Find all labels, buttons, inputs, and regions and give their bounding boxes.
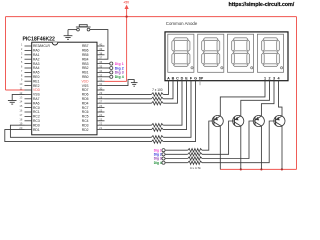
display segments digit 1 — [174, 38, 189, 41]
display DP dot digit 2 — [221, 67, 223, 69]
wire Q4 collector to +5V rail — [281, 126, 283, 169]
display DP dot digit 3 — [251, 67, 253, 69]
svg-text:RE3/MCLR: RE3/MCLR — [33, 44, 50, 48]
svg-text:RB3: RB3 — [82, 62, 89, 66]
svg-text:RE1: RE1 — [33, 79, 40, 83]
pin stub right 32 VDD — [97, 80, 105, 82]
svg-text:RC0: RC0 — [33, 106, 40, 110]
wire +5V left drop to VDD pin 11 — [5, 17, 7, 90]
svg-text:RE0: RE0 — [33, 75, 40, 79]
wire resistor to Q4 base — [202, 121, 276, 163]
display DP dot digit 4 — [280, 67, 282, 69]
wire Q1 collector to +5V rail — [219, 126, 221, 169]
svg-text:RC2: RC2 — [33, 115, 40, 119]
svg-text:RA1: RA1 — [33, 53, 40, 57]
wire Q4 emitter lead — [281, 115, 283, 117]
pin stub left 14 RA6 — [25, 102, 32, 104]
svg-text:https://simple-circuit.com/: https://simple-circuit.com/ — [229, 2, 295, 8]
wire Dig2 to resistor — [165, 153, 188, 155]
node Dig 1 terminal — [110, 62, 113, 65]
pin stub right 33 RB0 — [97, 76, 105, 78]
resistor 4.7k base Q3 — [188, 157, 202, 160]
wire Q2 collector to +5V rail — [240, 126, 242, 169]
wire resistor to Q1 base — [202, 121, 214, 150]
wire resistor to Q3 base — [202, 121, 255, 159]
pin stub left 8 RE0 — [25, 76, 32, 78]
pin stub right 29 RD6 — [97, 93, 105, 95]
pin stub left 1 RE3/MCLR — [25, 45, 32, 47]
pin stub right 25 RC6 — [97, 111, 105, 113]
pin stub right 38 RB5 — [97, 54, 105, 56]
svg-text:RC5: RC5 — [82, 115, 89, 119]
display 4-digit 7-segment module — [165, 32, 288, 81]
pin DP stub unconnected — [199, 81, 201, 86]
svg-text:A: A — [167, 77, 170, 81]
display digit 2 module — [198, 34, 224, 72]
svg-text:RA2: RA2 — [33, 57, 40, 61]
svg-text:+5V: +5V — [123, 1, 130, 5]
display digit 4 module — [257, 34, 283, 72]
resistor 100 ohm seg E — [152, 128, 164, 131]
wire Q3 emitter lead — [260, 115, 262, 117]
resistor 4.7k base Q4 — [188, 161, 202, 164]
svg-text:RB1: RB1 — [82, 71, 89, 75]
ground right VSS — [131, 82, 138, 84]
pin stub right 21 RD2 — [97, 129, 105, 131]
svg-text:B: B — [172, 77, 175, 81]
svg-text:Common Anode: Common Anode — [166, 21, 198, 26]
pin stub left 16 RC1 — [25, 111, 32, 113]
wire resistor to display pin B — [163, 81, 173, 99]
wire resistor to display pin F — [163, 81, 191, 138]
pin stub left 4 RA2 — [25, 58, 32, 60]
wire RD2 to resistor — [105, 129, 152, 131]
svg-text:RB0: RB0 — [82, 75, 89, 79]
wire to left VDD pin — [6, 89, 25, 91]
wire to right VDD pin — [105, 80, 127, 82]
svg-text:PIC18F46K22: PIC18F46K22 — [23, 37, 55, 43]
wire Q2 emitter lead — [240, 115, 242, 117]
svg-text:RB6: RB6 — [82, 49, 89, 53]
wire Dig4 to resistor — [165, 162, 188, 164]
resistor 100 ohm seg F — [152, 136, 164, 139]
svg-text:RA5: RA5 — [33, 71, 40, 75]
svg-text:RC7: RC7 — [82, 106, 89, 110]
wire button to ground — [68, 29, 77, 31]
pin stub left 13 RA7 — [25, 98, 32, 100]
wire RD0 reroute under IC — [10, 125, 151, 137]
pin stub left 18 RC3 — [25, 120, 32, 122]
svg-text:RD7: RD7 — [82, 88, 89, 92]
pin stub left 7 RA5 — [25, 71, 32, 73]
wire RD4 to resistor — [105, 102, 152, 104]
svg-text:RD3: RD3 — [82, 123, 89, 127]
wire RD6 to resistor — [105, 93, 152, 95]
wire +5V bottom emitter rail — [220, 168, 296, 170]
svg-text:Dig 1: Dig 1 — [115, 62, 124, 66]
wire +5V top rail — [6, 16, 297, 18]
svg-text:C: C — [176, 77, 179, 81]
junction emitter rail dots — [240, 168, 242, 170]
resistor 100 ohm seg D — [152, 124, 164, 127]
svg-text:VSS: VSS — [82, 84, 89, 88]
wire display digit pin 4 to Q4 — [279, 81, 283, 116]
transistor Q1 PNP — [212, 115, 223, 126]
transistor Q3 PNP — [253, 115, 264, 126]
switch push button S1 — [76, 26, 91, 28]
wire resistor to display pin D — [163, 81, 182, 126]
svg-text:2: 2 — [268, 77, 270, 81]
wire RB0 to Dig4 terminal — [105, 76, 110, 78]
svg-text:RB2: RB2 — [82, 66, 89, 70]
ground left VSS — [8, 100, 17, 102]
svg-text:VSS: VSS — [33, 93, 40, 97]
resistor 100 ohm seg B — [152, 97, 164, 100]
wire +5V stem down to VDD pin 32 — [126, 9, 128, 81]
svg-text:RC6: RC6 — [82, 110, 89, 114]
svg-text:1: 1 — [264, 77, 266, 81]
svg-text:4 x 4.7k: 4 x 4.7k — [190, 166, 201, 170]
pin stub left 5 RA3 — [25, 63, 32, 65]
resistor 100 ohm seg C — [152, 102, 164, 105]
wire Q1 emitter lead — [219, 115, 221, 117]
svg-text:RC3: RC3 — [33, 119, 40, 123]
wire resistor to Q2 base — [202, 121, 234, 154]
wire Dig1 to resistor — [165, 149, 188, 151]
node Dig 4 terminal — [110, 75, 113, 78]
svg-text:RA4: RA4 — [33, 66, 40, 70]
wire right VSS to ground — [105, 80, 135, 86]
svg-text:RB4: RB4 — [82, 57, 89, 61]
pin stub right 22 RD3 — [97, 124, 105, 126]
svg-text:Dig 3: Dig 3 — [115, 71, 124, 75]
svg-text:RD5: RD5 — [82, 97, 89, 101]
ground button — [64, 35, 73, 37]
pin stub right 27 RD4 — [97, 102, 105, 104]
svg-text:RB7: RB7 — [82, 44, 89, 48]
pin stub right 31 VSS — [97, 85, 105, 87]
svg-text:Dig 2: Dig 2 — [115, 66, 124, 70]
resistor 4.7k base Q1 — [188, 149, 202, 152]
op IC U1 PIC18F46K22 body — [32, 42, 97, 135]
pin stub right 26 RC7 — [97, 107, 105, 109]
wire RB1 to Dig3 terminal — [105, 71, 110, 73]
wire RB2 to Dig2 terminal — [105, 67, 110, 69]
svg-text:RC1: RC1 — [33, 110, 40, 114]
transistor Q4 PNP — [274, 115, 285, 126]
svg-text:RD6: RD6 — [82, 93, 89, 97]
svg-text:RB5: RB5 — [82, 53, 89, 57]
svg-text:RA7: RA7 — [33, 97, 40, 101]
svg-text:RA0: RA0 — [33, 49, 40, 53]
svg-text:RA3: RA3 — [33, 62, 40, 66]
pin stub left 15 RC0 — [25, 107, 32, 109]
pin stub left 12 VSS — [25, 93, 32, 95]
resistor 4.7k base Q2 — [188, 153, 202, 156]
pin stub right 37 RB4 — [97, 58, 105, 60]
svg-text:Dig 4: Dig 4 — [115, 75, 124, 79]
svg-text:RD4: RD4 — [82, 101, 89, 105]
pin stub right 24 RC5 — [97, 115, 105, 117]
pin stub left 17 RC2 — [25, 115, 32, 117]
pin stub right 23 RC4 — [97, 120, 105, 122]
svg-text:7 x 100: 7 x 100 — [152, 88, 163, 92]
svg-text:VDD: VDD — [33, 88, 41, 92]
pin stub right 36 RB3 — [97, 63, 105, 65]
display segments digit 2 — [203, 38, 218, 41]
pin stub left 9 RE1 — [25, 80, 32, 82]
pin stub left 19 RD0 — [25, 124, 32, 126]
display DP dot digit 1 — [191, 67, 193, 69]
svg-text:RD0: RD0 — [33, 123, 40, 127]
wire Q3 collector to +5V rail — [260, 126, 262, 169]
transistor Q2 PNP — [233, 115, 244, 126]
wire RD1 reroute under IC — [5, 130, 152, 142]
svg-text:Dig 4: Dig 4 — [154, 161, 162, 165]
wire button to RB4 — [90, 30, 108, 60]
wire display digit pin 2 to Q2 — [241, 81, 270, 116]
pin stub right 39 RB6 — [97, 49, 105, 51]
wire RB3 to Dig1 terminal — [105, 63, 110, 65]
svg-text:G: G — [194, 77, 197, 81]
node Dig 2 terminal — [110, 66, 113, 69]
pin stub right 35 RB2 — [97, 67, 105, 69]
wire Dig3 to resistor — [165, 158, 188, 160]
pin stub right 28 RD5 — [97, 98, 105, 100]
wire RD5 to resistor — [105, 98, 152, 100]
wire display digit pin 1 to Q1 — [220, 81, 265, 116]
display digit 1 module — [168, 34, 194, 72]
pin stub left 10 RE2 — [25, 85, 32, 87]
wire resistor to display pin E — [163, 81, 186, 130]
wire resistor to display pin C — [163, 81, 177, 104]
svg-text:RE2: RE2 — [33, 84, 40, 88]
resistor 100 ohm seg G — [152, 140, 164, 143]
svg-text:RD2: RD2 — [82, 128, 89, 132]
svg-text:RC4: RC4 — [82, 119, 89, 123]
svg-text:D: D — [181, 77, 184, 81]
pin stub left 2 RA0 — [25, 49, 32, 51]
svg-text:3: 3 — [273, 77, 275, 81]
svg-text:VDD: VDD — [81, 79, 89, 83]
node Dig 3 terminal — [110, 71, 113, 74]
pin stub left 3 RA1 — [25, 54, 32, 56]
wire RD3 to resistor — [105, 124, 152, 126]
wire display digit pin 3 to Q3 — [261, 81, 274, 116]
pin stub left 11 VDD — [25, 89, 32, 91]
pin stub left 20 RD1 — [25, 129, 32, 131]
pin stub right 40 RB7 — [97, 45, 105, 47]
display segments digit 4 — [263, 38, 278, 41]
wire resistor to display pin A — [163, 81, 168, 95]
display digit 3 module — [228, 34, 254, 72]
svg-text:RA6: RA6 — [33, 101, 40, 105]
svg-text:RD1: RD1 — [33, 128, 40, 132]
pin stub right 30 RD7 — [97, 89, 105, 91]
junction +5V rail dot — [125, 15, 127, 17]
pin stub left 6 RA4 — [25, 67, 32, 69]
resistor 100 ohm seg A — [152, 93, 164, 96]
display segments digit 3 — [233, 38, 248, 41]
pin stub right 34 RB1 — [97, 71, 105, 73]
wire +5V right edge drop — [296, 17, 298, 170]
wire resistor to display pin G — [163, 81, 195, 142]
wire left VSS to ground — [12, 94, 24, 100]
